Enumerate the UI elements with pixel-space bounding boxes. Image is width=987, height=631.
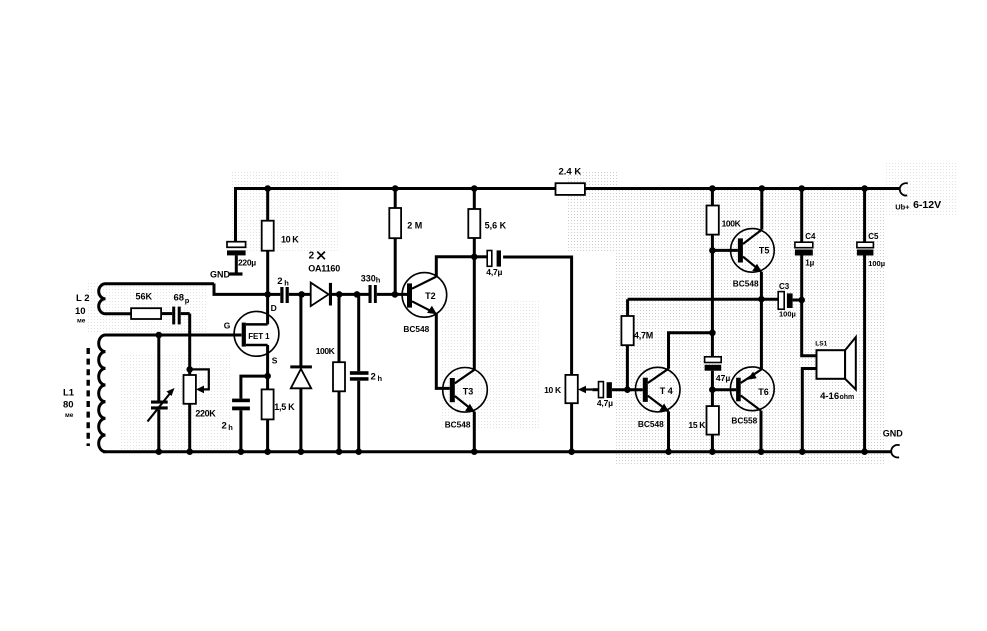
junction variable capacitor on ground rail [156, 448, 163, 455]
svg-text:BC548: BC548 [445, 419, 471, 429]
svg-text:h: h [378, 374, 383, 383]
resistor 100K mid [316, 294, 345, 451]
potentiometer 10K [544, 375, 592, 452]
label L2 10 me [75, 293, 90, 324]
junction 10K top on supply rail [264, 185, 271, 192]
terminal Ub+ [895, 183, 941, 211]
node C3 right [798, 297, 805, 304]
svg-text:T3: T3 [463, 387, 474, 397]
node T4 base [624, 386, 631, 393]
wire top supply rail right segment [585, 187, 900, 190]
junction speaker return on ground rail [799, 448, 806, 455]
svg-text:T2: T2 [425, 291, 436, 301]
svg-text:OA1160: OA1160 [308, 263, 340, 273]
capacitor C3 electrolytic [778, 282, 802, 319]
svg-text:LS1: LS1 [815, 341, 827, 348]
svg-text:T 4: T 4 [660, 386, 673, 396]
svg-text:p: p [185, 296, 190, 305]
resistor 56K [131, 291, 172, 319]
capacitor C4 electrolytic [795, 189, 816, 301]
svg-text:4-16: 4-16 [820, 391, 839, 402]
svg-text:10 K: 10 K [281, 234, 299, 244]
capacitor 330h [361, 273, 407, 303]
svg-text:15 K: 15 K [688, 420, 706, 430]
node T5 emitter output [758, 296, 765, 303]
svg-text:C5: C5 [868, 232, 879, 241]
svg-text:330: 330 [361, 273, 376, 283]
svg-text:C4: C4 [805, 232, 816, 241]
svg-text:10: 10 [75, 306, 86, 317]
capacitor 2h bypass at FET source [222, 376, 268, 452]
svg-text:100K: 100K [722, 218, 742, 228]
svg-text:1µ: 1µ [805, 259, 814, 268]
node T4 collector junction [709, 330, 716, 337]
terminal GND [883, 429, 904, 458]
svg-text:2: 2 [222, 421, 227, 432]
node gate line to tuning capacitor [156, 332, 163, 339]
svg-text:ме: ме [65, 412, 74, 419]
ferrite core dashed line [86, 348, 89, 446]
svg-text:100K: 100K [316, 346, 336, 356]
wire T6 base lead [712, 388, 736, 391]
capacitor 47u electrolytic [705, 357, 731, 406]
wire T4 collector [669, 333, 714, 369]
svg-text:Ub+: Ub+ [895, 203, 910, 212]
resistor 1.5K [262, 376, 296, 452]
junction 1.5K on ground rail [264, 448, 271, 455]
transistor T4 [635, 367, 680, 428]
svg-text:BC558: BC558 [731, 415, 757, 425]
transistor T3 [443, 368, 488, 430]
transistor T5 [731, 229, 775, 289]
junction 2h bypass on ground rail [238, 448, 245, 455]
node T5 base [709, 247, 716, 254]
junction T4 emitter on ground rail [665, 448, 672, 455]
resistor 2M [389, 189, 422, 295]
wire main signal line left [268, 293, 280, 296]
node 5.6K bottom [471, 253, 478, 260]
svg-text:2: 2 [371, 372, 376, 383]
junction 2M top on supply rail [392, 185, 399, 192]
wire T5 base lead [712, 249, 738, 252]
resistor 10K [262, 189, 300, 295]
node before 330h [354, 291, 361, 298]
junction 100K mid on ground rail [336, 448, 343, 455]
capacitor C5 electrolytic [857, 189, 885, 452]
svg-text:100µ: 100µ [779, 310, 796, 319]
diode D1 OA1160 [311, 283, 369, 307]
wire 68p down to 220K [188, 314, 191, 370]
resistor 4.7M [621, 299, 653, 390]
wire top supply rail left segment [236, 189, 556, 242]
node T2 base [392, 291, 399, 298]
node after diode [336, 291, 343, 298]
svg-text:10 K: 10 K [544, 385, 562, 395]
coil L2 [99, 284, 214, 314]
junction 10K pot on ground rail [568, 448, 575, 455]
potentiometer 220K [184, 366, 217, 452]
svg-text:1,5 K: 1,5 K [274, 402, 295, 412]
svg-text:ме: ме [77, 317, 86, 324]
svg-text:FET 1: FET 1 [248, 332, 270, 341]
svg-text:h: h [376, 276, 381, 285]
node [298, 291, 305, 298]
wire T3 emitter down [473, 412, 476, 452]
junction C5 top on supply rail [861, 185, 868, 192]
svg-text:h: h [284, 278, 289, 287]
capacitor 4.7u first electrolytic [474, 250, 502, 277]
capacitor 2h mid [350, 294, 383, 451]
junction 15K on ground rail [709, 448, 716, 455]
svg-text:4,7M: 4,7M [634, 331, 653, 341]
svg-text:S: S [272, 355, 278, 365]
svg-text:L 2: L 2 [76, 293, 90, 304]
wire right column down [711, 250, 714, 356]
junction T6 collector on ground rail [758, 448, 765, 455]
node drain junction [264, 291, 271, 298]
wire T4 emitter [667, 411, 670, 451]
svg-text:T5: T5 [759, 246, 770, 256]
label L1 80 me [63, 387, 75, 419]
resistor 2.4K [556, 166, 585, 195]
variable capacitor [148, 335, 175, 452]
node source junction [264, 373, 271, 380]
capacitor 68p [172, 293, 190, 325]
svg-text:2.4 K: 2.4 K [559, 166, 582, 177]
svg-text:220µ: 220µ [238, 258, 256, 268]
svg-text:47µ: 47µ [716, 373, 730, 383]
ground symbol at 220u [210, 269, 243, 279]
svg-text:2: 2 [277, 276, 282, 287]
svg-text:h: h [228, 423, 233, 432]
svg-text:GND: GND [883, 429, 904, 439]
wire T2 collector [436, 257, 474, 277]
wire bottom ground rail [103, 450, 891, 453]
transistor FET1 [224, 294, 279, 376]
svg-text:T6: T6 [758, 387, 769, 397]
svg-text:56K: 56K [136, 291, 153, 301]
transistor T6 [730, 367, 774, 425]
svg-text:220K: 220K [195, 408, 216, 418]
svg-text:2 M: 2 M [407, 220, 422, 230]
wire T2 emitter to T3 base [436, 314, 450, 389]
wire to 10K pot [503, 257, 571, 375]
svg-text:BC548: BC548 [638, 419, 664, 429]
label 2x OA1160 [308, 251, 340, 274]
junction diode D2 on ground rail [298, 448, 305, 455]
resistor 100K right [707, 189, 742, 251]
svg-text:4,7µ: 4,7µ [597, 398, 613, 408]
wire [289, 293, 311, 296]
junction T3 emitter on ground rail [471, 448, 478, 455]
svg-text:5,6 K: 5,6 K [485, 221, 507, 231]
resistor 15K [688, 406, 719, 452]
wire T6 collector [760, 411, 763, 452]
svg-text:2: 2 [309, 251, 315, 262]
node T6 base [709, 386, 716, 393]
junction 2h mid on ground rail [355, 448, 362, 455]
svg-text:68: 68 [174, 293, 185, 304]
junction 100K top on supply rail [709, 185, 716, 192]
svg-text:C3: C3 [779, 282, 790, 291]
svg-text:100µ: 100µ [868, 259, 885, 268]
svg-text:D: D [271, 303, 277, 313]
wire T5 collector [760, 189, 763, 230]
junction T5 collector on supply rail [759, 185, 766, 192]
capacitor 2h coupling [277, 276, 289, 303]
resistor 5.6K [468, 189, 506, 257]
diode D2 vertical [290, 294, 312, 451]
junction 220K on ground rail [186, 448, 193, 455]
wire T3 collector up [473, 257, 476, 370]
coil L1 [99, 335, 106, 452]
svg-text:L1: L1 [63, 387, 75, 398]
svg-text:BC548: BC548 [733, 279, 759, 289]
wire T5 emitter down to T6 emitter [760, 272, 763, 370]
svg-text:80: 80 [63, 400, 74, 411]
wire L2 top to drain node [214, 284, 268, 295]
capacitor 220u electrolytic [227, 242, 256, 273]
svg-text:ohm: ohm [840, 394, 855, 401]
svg-text:6-12V: 6-12V [913, 199, 941, 211]
svg-text:G: G [224, 320, 231, 330]
capacitor 4.7u second electrolytic [592, 382, 643, 409]
transistor T2 [402, 273, 447, 334]
wire gate line [106, 334, 242, 337]
svg-text:BC548: BC548 [403, 324, 429, 334]
svg-text:4,7µ: 4,7µ [486, 267, 502, 277]
junction 5.6K top on supply rail [471, 185, 478, 192]
wire feedback line [628, 298, 780, 301]
speaker LS1 [802, 300, 856, 452]
svg-text:GND: GND [210, 269, 231, 279]
junction C4 top on supply rail [798, 185, 805, 192]
junction C5 bottom on ground rail [861, 448, 868, 455]
